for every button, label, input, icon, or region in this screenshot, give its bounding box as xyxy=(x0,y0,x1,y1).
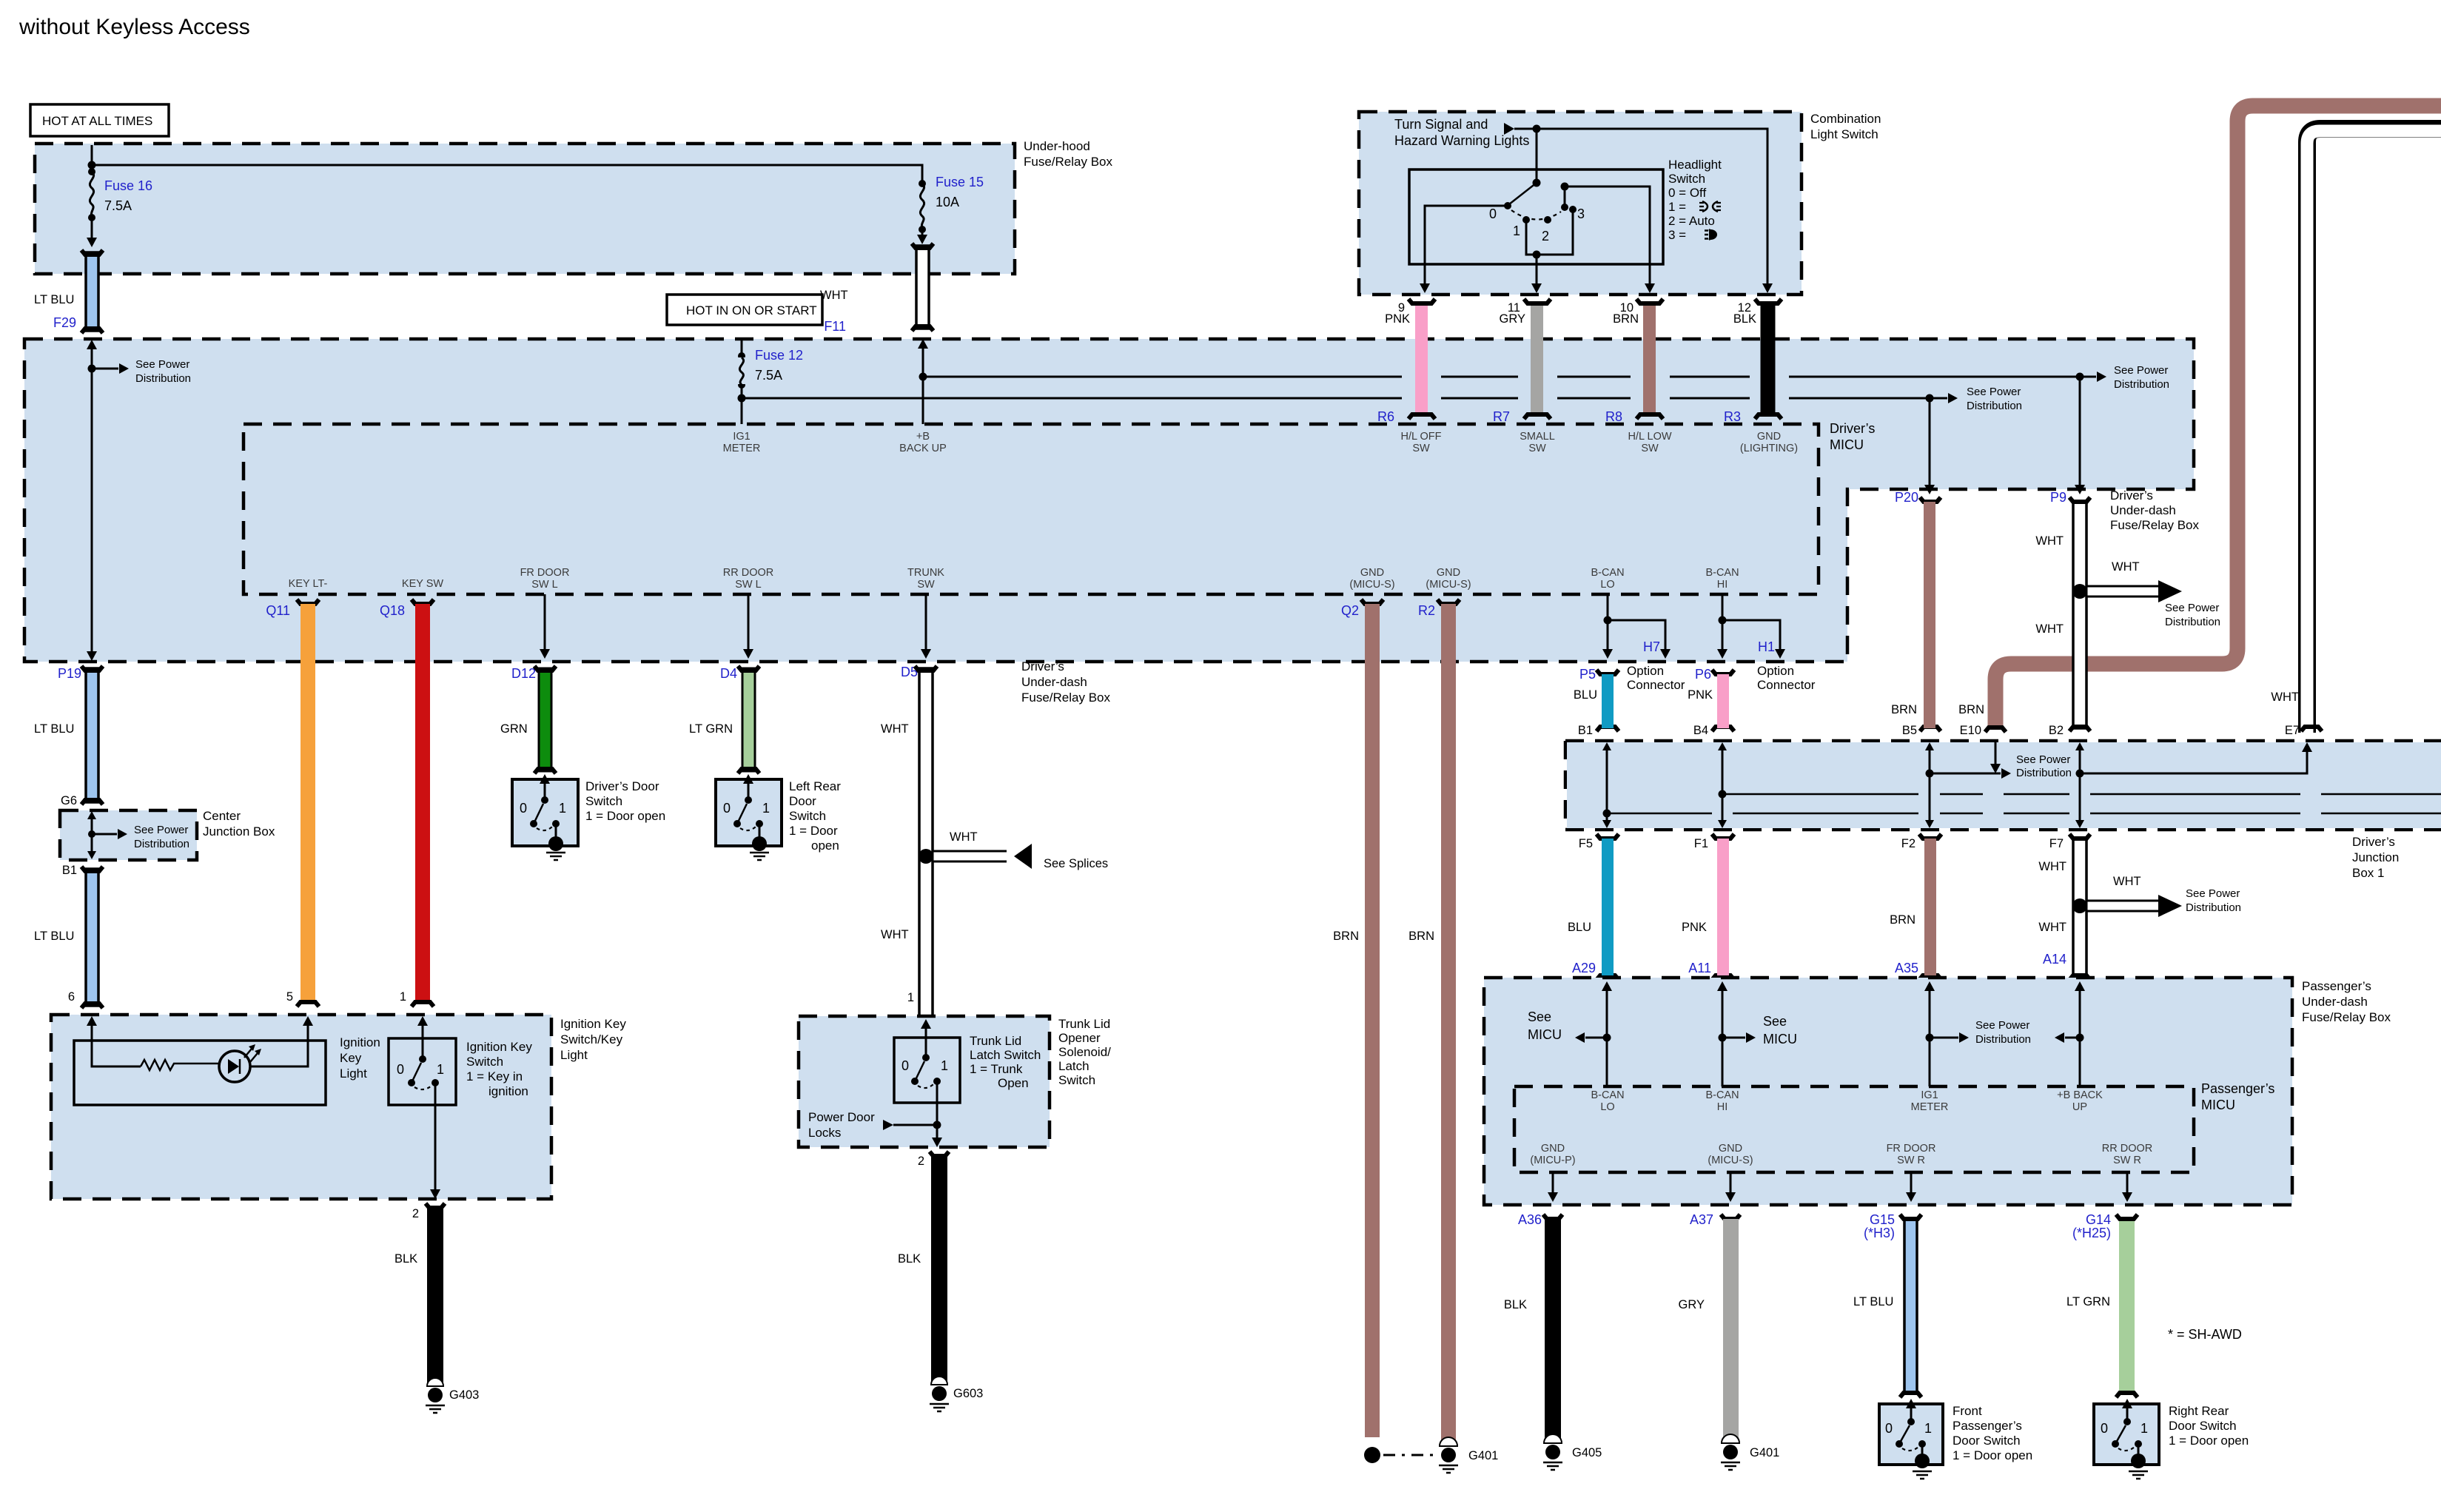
connector F1/A11 (PNK) xyxy=(1682,834,1734,980)
svg-text:1 = Door open: 1 = Door open xyxy=(1953,1448,2032,1462)
B4-F1 wire xyxy=(1718,742,1727,828)
pin 5 and pin 1 numbers xyxy=(286,990,406,1004)
svg-text:HI: HI xyxy=(1717,1101,1728,1113)
svg-text:H1: H1 xyxy=(1758,639,1775,654)
connector F5/A29 (BLU) xyxy=(1568,834,1619,980)
svg-text:Door: Door xyxy=(789,794,816,808)
svg-text:Key: Key xyxy=(340,1051,362,1065)
svg-text:BLK: BLK xyxy=(1504,1298,1527,1311)
svg-text:0: 0 xyxy=(901,1058,909,1073)
pin exit arrows xyxy=(1420,283,1773,293)
HOT IN ON OR START box xyxy=(667,295,822,325)
svg-text:Option: Option xyxy=(1627,664,1664,678)
passenger's MICU box xyxy=(1514,1081,2274,1172)
B-CAN HI split to P6/H1 xyxy=(1717,594,1785,659)
svg-text:7.5A: 7.5A xyxy=(104,198,132,213)
svg-text:See: See xyxy=(1763,1014,1787,1029)
svg-text:SW: SW xyxy=(917,579,935,591)
junction box bus upper xyxy=(1722,793,2441,796)
svg-text:F2: F2 xyxy=(1901,837,1915,850)
under-hood fuse/relay box xyxy=(35,139,1112,274)
svg-text:BRN: BRN xyxy=(1891,703,1917,716)
svg-text:METER: METER xyxy=(1911,1101,1949,1113)
connector Q18 (RED) xyxy=(380,599,434,1007)
passenger's under-dash fuse/relay box xyxy=(1484,978,2391,1205)
svg-text:BLK: BLK xyxy=(1733,312,1756,326)
svg-text:GND: GND xyxy=(1757,431,1781,443)
svg-text:B-CAN: B-CAN xyxy=(1705,1089,1739,1101)
splice on P9 wire / see power distribution xyxy=(2072,560,2220,628)
connector P6 (PNK) xyxy=(1688,667,1734,737)
svg-text:GRY: GRY xyxy=(1500,312,1525,326)
svg-text:E10: E10 xyxy=(1960,724,1981,737)
ignition key switch component box xyxy=(389,1038,532,1105)
svg-text:3 =: 3 = xyxy=(1668,228,1686,242)
svg-text:GND: GND xyxy=(1719,1143,1742,1155)
connector D5 (WHT wire down) xyxy=(881,665,937,1022)
svg-text:Fuse 15: Fuse 15 xyxy=(936,175,984,189)
turn signal feed arrow xyxy=(1394,117,1529,148)
svg-text:Right Rear: Right Rear xyxy=(2169,1404,2229,1418)
svg-text:Q18: Q18 xyxy=(380,603,405,618)
svg-text:R2: R2 xyxy=(1418,603,1435,618)
wire A11 to B-CAN HI with see MICU tap xyxy=(1717,981,1797,1086)
svg-text:Distribution: Distribution xyxy=(2016,767,2072,779)
ground G403 xyxy=(426,1378,479,1413)
fuse 12 xyxy=(736,339,803,424)
connector G14 (LT GRN) xyxy=(2066,1212,2138,1397)
svg-text:Trunk Lid: Trunk Lid xyxy=(1058,1017,1110,1031)
svg-text:1: 1 xyxy=(762,801,770,816)
svg-text:Fuse/Relay Box: Fuse/Relay Box xyxy=(2302,1010,2391,1024)
svg-text:MICU: MICU xyxy=(1763,1032,1797,1046)
svg-text:BLK: BLK xyxy=(394,1252,417,1266)
svg-text:Light: Light xyxy=(340,1066,367,1081)
svg-text:1: 1 xyxy=(941,1058,948,1073)
svg-text:A37: A37 xyxy=(1690,1212,1713,1227)
svg-text:MICU: MICU xyxy=(1830,437,1864,452)
svg-text:Passenger’s: Passenger’s xyxy=(2201,1081,2274,1096)
svg-text:P19: P19 xyxy=(58,666,81,681)
svg-text:See Power: See Power xyxy=(134,824,188,836)
svg-text:1: 1 xyxy=(559,801,566,816)
svg-text:P20: P20 xyxy=(1895,490,1918,505)
svg-text:KEY SW: KEY SW xyxy=(402,578,443,590)
left rear door switch xyxy=(716,774,841,860)
svg-text:Under-dash: Under-dash xyxy=(1021,675,1087,689)
splice on F7 wire / see power distribution xyxy=(2072,875,2241,917)
passenger MICU bottom pin labels xyxy=(1530,1143,1575,1166)
svg-text:A11: A11 xyxy=(1688,961,1711,975)
svg-text:Distribution: Distribution xyxy=(134,838,189,850)
driver's under-dash label (right) xyxy=(2110,488,2199,532)
svg-text:GND: GND xyxy=(1541,1143,1565,1155)
svg-text:1: 1 xyxy=(907,991,914,1004)
svg-text:2: 2 xyxy=(918,1155,924,1168)
svg-text:Headlight: Headlight xyxy=(1668,158,1722,172)
svg-text:0: 0 xyxy=(520,801,527,816)
svg-text:Ignition Key: Ignition Key xyxy=(466,1040,532,1054)
svg-text:SW: SW xyxy=(1528,443,1546,454)
svg-text:F7: F7 xyxy=(2049,837,2064,850)
svg-text:G15: G15 xyxy=(1870,1212,1895,1227)
svg-text:* = SH-AWD: * = SH-AWD xyxy=(2168,1327,2242,1342)
svg-text:Fuse/Relay Box: Fuse/Relay Box xyxy=(1021,691,1110,705)
svg-text:HOT IN ON OR START: HOT IN ON OR START xyxy=(686,303,817,317)
connector E10 cap xyxy=(1958,703,2006,737)
svg-text:Driver’s: Driver’s xyxy=(1830,421,1875,436)
center junction box xyxy=(60,809,275,860)
svg-text:Fuse 16: Fuse 16 xyxy=(104,178,152,193)
svg-text:Door Switch: Door Switch xyxy=(1953,1434,2021,1448)
fuse 15 xyxy=(917,175,984,244)
svg-text:WHT: WHT xyxy=(881,722,909,736)
connector D4 (LT GRN) xyxy=(689,666,759,773)
driver's door switch xyxy=(512,774,665,860)
wire contact0 to pin 9 xyxy=(1425,206,1508,283)
B2-F7 wire xyxy=(2075,742,2084,828)
svg-text:SW: SW xyxy=(1412,443,1430,454)
svg-text:FR DOOR: FR DOOR xyxy=(520,567,570,579)
svg-text:WHT: WHT xyxy=(950,830,978,844)
svg-text:B4: B4 xyxy=(1693,724,1708,737)
svg-text:Fuse 12: Fuse 12 xyxy=(755,348,803,363)
svg-text:PNK: PNK xyxy=(1688,688,1713,702)
svg-text:1: 1 xyxy=(1924,1421,1932,1436)
Q2 splice to G401 xyxy=(1364,1447,1437,1463)
ground G603 xyxy=(930,1377,983,1411)
svg-text:6: 6 xyxy=(68,990,75,1004)
svg-text:LT GRN: LT GRN xyxy=(2066,1295,2110,1308)
svg-text:Door Switch: Door Switch xyxy=(2169,1419,2237,1433)
svg-text:BRN: BRN xyxy=(1408,930,1434,943)
svg-text:F29: F29 xyxy=(53,315,76,330)
connector R2 (BRN) xyxy=(1418,599,1460,1443)
svg-text:R7: R7 xyxy=(1493,409,1510,424)
svg-text:GRN: GRN xyxy=(500,722,528,736)
svg-text:LT BLU: LT BLU xyxy=(1853,1295,1893,1308)
svg-text:See: See xyxy=(1528,1009,1551,1024)
pin 12 connector (BLK) xyxy=(1724,299,1782,424)
svg-text:MICU: MICU xyxy=(2201,1098,2235,1112)
svg-text:2: 2 xyxy=(1542,229,1549,243)
svg-text:Connector: Connector xyxy=(1627,678,1685,692)
svg-text:Distribution: Distribution xyxy=(135,372,191,385)
splice on D5 wire xyxy=(919,830,1108,870)
svg-text:See Power: See Power xyxy=(2165,602,2219,614)
svg-text:without Keyless Access: without Keyless Access xyxy=(19,15,250,39)
note SH-AWD xyxy=(2168,1327,2242,1342)
svg-text:RR DOOR: RR DOOR xyxy=(2102,1143,2152,1155)
wire +B to F11 xyxy=(918,339,928,424)
resistor xyxy=(141,1060,219,1070)
svg-text:FR DOOR: FR DOOR xyxy=(1887,1143,1936,1155)
svg-text:Switch: Switch xyxy=(585,794,622,808)
connector F7/A14 (WHT wire) xyxy=(2038,834,2090,980)
ignition key switch/key light box xyxy=(51,1015,626,1199)
ground G401 (A37) xyxy=(1721,1434,1779,1470)
wire A35 to IG1 METER with see power tap xyxy=(1924,981,2031,1086)
svg-text:Trunk Lid: Trunk Lid xyxy=(970,1034,1021,1048)
ground G401 (R2) xyxy=(1439,1437,1498,1473)
svg-text:(LIGHTING): (LIGHTING) xyxy=(1740,443,1798,454)
svg-text:G14: G14 xyxy=(2086,1212,2111,1227)
svg-text:Opener: Opener xyxy=(1058,1031,1101,1045)
svg-text:0: 0 xyxy=(1885,1421,1893,1436)
svg-text:LO: LO xyxy=(1600,579,1614,591)
svg-text:2 = Auto: 2 = Auto xyxy=(1668,214,1715,228)
connector P5 (BLU) xyxy=(1574,667,1619,737)
svg-text:5: 5 xyxy=(286,990,293,1004)
E10 wire into strip xyxy=(1990,741,2001,773)
svg-text:F5: F5 xyxy=(1579,837,1593,850)
svg-text:WHT: WHT xyxy=(2113,875,2141,888)
right rear door switch xyxy=(2094,1399,2249,1479)
driver's junction box 1 xyxy=(1565,741,2441,880)
svg-text:Fuse/Relay Box: Fuse/Relay Box xyxy=(2110,518,2199,532)
wire RR DOOR SW L to D4 xyxy=(743,594,753,659)
svg-text:Distribution: Distribution xyxy=(2114,378,2169,391)
svg-text:TRUNK: TRUNK xyxy=(907,567,944,579)
svg-text:IG1: IG1 xyxy=(733,431,750,443)
pin 11 connector (GRY) xyxy=(1493,299,1551,424)
svg-text:0: 0 xyxy=(2101,1421,2108,1436)
svg-text:(MICU-S): (MICU-S) xyxy=(1349,579,1394,591)
headlight switch legend xyxy=(1668,158,1722,242)
svg-text:Turn Signal and: Turn Signal and xyxy=(1394,117,1488,132)
svg-text:BRN: BRN xyxy=(1333,930,1359,943)
svg-text:LT BLU: LT BLU xyxy=(34,722,74,736)
svg-text:Junction Box: Junction Box xyxy=(203,824,275,839)
svg-text:Passenger’s: Passenger’s xyxy=(1953,1419,2022,1433)
svg-text:WHT: WHT xyxy=(2271,691,2299,704)
svg-text:R8: R8 xyxy=(1605,409,1622,424)
svg-text:Ignition: Ignition xyxy=(340,1035,380,1049)
svg-text:0: 0 xyxy=(1489,206,1497,221)
svg-text:7.5A: 7.5A xyxy=(755,368,782,383)
wire A29 to B-CAN LO with see MICU tap xyxy=(1528,981,1612,1086)
svg-text:1 = Key in: 1 = Key in xyxy=(466,1069,523,1083)
svg-text:PNK: PNK xyxy=(1682,921,1707,934)
svg-text:Driver’s: Driver’s xyxy=(2352,835,2395,849)
ignition key light component box xyxy=(74,1035,380,1105)
connector P9 (WHT) to B2 xyxy=(2035,490,2090,737)
connector P19 (LT BLU) xyxy=(34,666,103,807)
svg-text:See Power: See Power xyxy=(2016,753,2070,766)
svg-text:Switch: Switch xyxy=(789,809,826,823)
svg-text:Under-hood: Under-hood xyxy=(1024,139,1090,153)
svg-text:A36: A36 xyxy=(1518,1212,1542,1227)
connector F29 (LT BLU) xyxy=(34,250,103,333)
svg-text:RR DOOR: RR DOOR xyxy=(723,567,773,579)
icon position 1 (parking lights) xyxy=(1699,201,1721,212)
svg-text:Switch: Switch xyxy=(1668,172,1705,186)
svg-text:BRN: BRN xyxy=(1958,703,1984,716)
pin 9 connector (PNK) xyxy=(1377,299,1435,424)
svg-text:Switch: Switch xyxy=(1058,1073,1095,1087)
connector F2/A35 (BRN) xyxy=(1890,834,1941,980)
svg-text:Driver’s: Driver’s xyxy=(2110,488,2153,503)
svg-text:Left Rear: Left Rear xyxy=(789,779,841,793)
wire pin6 into key light xyxy=(87,1016,141,1066)
svg-text:Power Door: Power Door xyxy=(808,1110,875,1124)
connector 2 / BLK wire to G603 xyxy=(898,1152,949,1382)
svg-text:Distribution: Distribution xyxy=(1975,1033,2031,1046)
wire trunk switch to D5 xyxy=(921,1019,931,1055)
svg-text:LT BLU: LT BLU xyxy=(34,930,74,943)
wire through center junction box xyxy=(87,811,189,859)
wire to P9 xyxy=(2075,377,2085,494)
svg-text:UP: UP xyxy=(2072,1101,2087,1113)
title xyxy=(19,15,250,39)
svg-text:R6: R6 xyxy=(1377,409,1394,424)
svg-text:B-CAN: B-CAN xyxy=(1591,1089,1624,1101)
svg-text:WHT: WHT xyxy=(2035,622,2064,636)
svg-text:R3: R3 xyxy=(1724,409,1741,424)
svg-text:A29: A29 xyxy=(1572,961,1596,975)
wire contact3 to pin 10 xyxy=(1561,183,1651,284)
connector B1 (LT BLU) xyxy=(34,864,103,1008)
front passenger's door switch xyxy=(1879,1399,2032,1479)
svg-text:1: 1 xyxy=(1513,224,1520,238)
option connector label (P6/H1) xyxy=(1757,664,1816,692)
svg-text:G603: G603 xyxy=(953,1387,983,1400)
svg-text:G401: G401 xyxy=(1468,1449,1498,1462)
MICU bottom pin labels xyxy=(289,578,328,590)
bus wire B (IG1 meter feed) xyxy=(742,386,2022,412)
wire F29 to P19 xyxy=(87,340,191,661)
svg-text:1: 1 xyxy=(437,1062,444,1077)
svg-text:Ignition Key: Ignition Key xyxy=(560,1017,626,1031)
svg-text:(MICU-P): (MICU-P) xyxy=(1530,1155,1575,1166)
svg-text:MICU: MICU xyxy=(1528,1027,1562,1042)
wire from hot-at-all-times bus xyxy=(88,145,923,181)
svg-text:(MICU-S): (MICU-S) xyxy=(1708,1155,1753,1166)
svg-text:Passenger’s: Passenger’s xyxy=(2302,979,2371,993)
svg-text:See Power: See Power xyxy=(1975,1019,2029,1032)
svg-text:GRY: GRY xyxy=(1679,1298,1705,1311)
svg-text:LT GRN: LT GRN xyxy=(689,722,733,736)
svg-text:2: 2 xyxy=(412,1207,419,1220)
svg-text:Center: Center xyxy=(203,809,241,823)
svg-text:B2: B2 xyxy=(2049,724,2064,737)
svg-text:Box 1: Box 1 xyxy=(2352,866,2384,880)
wires MICU-P/MICU-S/FR/RR to connectors xyxy=(1548,1172,1558,1202)
svg-text:F11: F11 xyxy=(824,319,846,334)
svg-text:P9: P9 xyxy=(2050,490,2066,505)
headlight switch rotor xyxy=(1489,129,1585,243)
connector Q2 (BRN) xyxy=(1341,599,1383,1437)
svg-text:G405: G405 xyxy=(1572,1446,1602,1459)
svg-text:Locks: Locks xyxy=(808,1126,841,1140)
svg-text:1 = Trunk: 1 = Trunk xyxy=(970,1062,1023,1076)
wire to P20 xyxy=(1924,398,1935,494)
svg-text:H7: H7 xyxy=(1643,639,1660,654)
svg-text:Junction: Junction xyxy=(2352,850,2399,864)
svg-text:BLU: BLU xyxy=(1574,688,1597,702)
svg-text:P6: P6 xyxy=(1695,667,1711,682)
wire FR DOOR SW L to D12 xyxy=(540,594,550,659)
svg-text:Open: Open xyxy=(998,1076,1029,1090)
HOT AT ALL TIMES box xyxy=(30,104,169,136)
svg-text:H/L LOW: H/L LOW xyxy=(1628,431,1671,443)
svg-text:0: 0 xyxy=(397,1062,404,1077)
svg-text:Driver’s Door: Driver’s Door xyxy=(585,779,659,793)
svg-text:1 =: 1 = xyxy=(1668,200,1686,214)
svg-text:B1: B1 xyxy=(62,864,77,877)
LED xyxy=(219,1044,261,1082)
svg-text:GND: GND xyxy=(1437,567,1460,579)
svg-text:Connector: Connector xyxy=(1757,678,1816,692)
svg-text:B1: B1 xyxy=(1578,724,1593,737)
svg-text:Option: Option xyxy=(1757,664,1794,678)
wire key switch pin1 xyxy=(417,1016,428,1057)
svg-text:G401: G401 xyxy=(1750,1446,1779,1459)
connector G15 (LT BLU) xyxy=(1853,1212,1921,1397)
svg-text:(*H25): (*H25) xyxy=(2072,1226,2111,1240)
svg-text:IG1: IG1 xyxy=(1921,1089,1938,1101)
svg-text:0: 0 xyxy=(723,801,731,816)
svg-text:Latch Switch: Latch Switch xyxy=(970,1048,1041,1062)
trunk lid latch switch xyxy=(894,1034,1041,1103)
svg-text:1 = Door open: 1 = Door open xyxy=(2169,1434,2249,1448)
svg-text:Front: Front xyxy=(1953,1404,1982,1418)
svg-text:SW: SW xyxy=(1641,443,1659,454)
svg-text:Under-dash: Under-dash xyxy=(2110,503,2176,517)
svg-text:Latch: Latch xyxy=(1058,1059,1089,1073)
svg-text:WHT: WHT xyxy=(820,289,848,302)
svg-text:See Power: See Power xyxy=(1967,386,2021,398)
svg-text:P5: P5 xyxy=(1579,667,1596,682)
ground G405 xyxy=(1543,1434,1602,1470)
svg-text:SW L: SW L xyxy=(735,579,761,591)
svg-text:Light: Light xyxy=(560,1048,588,1062)
thick BRN wire from E10 to top right xyxy=(1995,106,2441,729)
svg-text:1: 1 xyxy=(400,990,406,1004)
svg-text:10A: 10A xyxy=(936,195,959,209)
connector F11 (WHT) xyxy=(820,243,933,334)
svg-text:See Splices: See Splices xyxy=(1044,857,1108,870)
svg-text:WHT: WHT xyxy=(2038,921,2066,934)
svg-text:B5: B5 xyxy=(1902,724,1917,737)
wire contacts1-2 loop to pin 11 xyxy=(1526,206,1577,283)
svg-text:+B: +B xyxy=(916,431,930,443)
svg-text:BACK UP: BACK UP xyxy=(899,443,947,454)
svg-text:See Power: See Power xyxy=(2186,887,2240,900)
driver's under-dash fuse/relay box (row 2) xyxy=(24,339,2194,705)
connector D12 (GRN) xyxy=(500,666,556,773)
option connector label (P5/H7) xyxy=(1627,664,1685,692)
svg-text:BRN: BRN xyxy=(1890,913,1915,927)
wire LED to pin 5 xyxy=(250,1016,313,1066)
B-CAN LO split to P5/H7 xyxy=(1602,594,1671,659)
wire key switch to pin 2 xyxy=(430,1083,440,1199)
svg-text:KEY LT-: KEY LT- xyxy=(289,578,328,590)
wire TRUNK SW to D5 xyxy=(921,594,931,659)
BRN labels on Q2/R2 xyxy=(1333,930,1434,943)
svg-text:See Power: See Power xyxy=(135,358,189,371)
connector 2 / BLK wire to G403 xyxy=(394,1203,445,1384)
svg-text:0 = Off: 0 = Off xyxy=(1668,186,1706,200)
passenger MICU top pin labels xyxy=(1591,1089,1624,1113)
MICU top pin labels xyxy=(723,431,761,454)
svg-text:A14: A14 xyxy=(2043,952,2066,967)
svg-text:open: open xyxy=(811,839,839,853)
svg-text:3: 3 xyxy=(1577,206,1585,221)
svg-text:A35: A35 xyxy=(1895,961,1918,975)
svg-text:F1: F1 xyxy=(1694,837,1708,850)
svg-text:B-CAN: B-CAN xyxy=(1705,567,1739,579)
